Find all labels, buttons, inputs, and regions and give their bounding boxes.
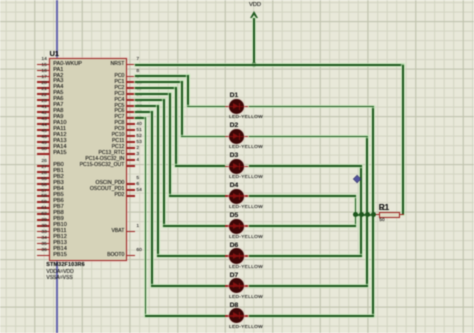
- wire bus vertical D4-D5: [355, 196, 357, 226]
- power symbol VDD: [250, 11, 258, 18]
- pin PB5 (57): [37, 195, 50, 197]
- pin PB3 (55): [37, 183, 50, 185]
- label D7: [230, 272, 239, 279]
- pin PB12 (33): [37, 237, 50, 239]
- label D3: [230, 152, 239, 159]
- pin OSCOUT_PD1 (6): [127, 189, 134, 191]
- pin PB6 (58): [37, 201, 50, 203]
- pin PA7 (23): [37, 105, 50, 107]
- text VDDA=VDD: [46, 270, 73, 275]
- LED D6: [225, 255, 230, 257]
- pin PB9 (62): [37, 219, 50, 221]
- value LED-YELLOW: [229, 115, 263, 120]
- wire R1 left stub: [373, 214, 379, 216]
- LED D8: [225, 315, 230, 317]
- wire PC4 to D5: [135, 99, 165, 101]
- pin BOOT0 (60): [127, 255, 134, 257]
- label D8: [230, 302, 239, 309]
- pin NRST (7): [127, 64, 134, 66]
- pin PB1 (27): [37, 171, 50, 173]
- pin OSCIN_PD0 (5): [127, 183, 134, 185]
- value LED-YELLOW: [229, 235, 263, 240]
- junction bus node 1: [353, 212, 358, 217]
- wire PC0 to D1: [135, 75, 190, 77]
- marker origin diamond: [354, 176, 360, 182]
- label U1: [50, 50, 59, 58]
- value LED-YELLOW: [229, 325, 263, 330]
- pin PB2 (28): [37, 177, 50, 179]
- pin PC11 (52): [127, 141, 134, 143]
- label D2: [230, 122, 239, 129]
- pin PA8 (41): [37, 111, 50, 113]
- pin PC13_RTC (2): [127, 153, 134, 155]
- LED D3: [225, 166, 230, 168]
- wire R1 right stub: [400, 214, 404, 216]
- pin PC2 (10): [127, 87, 134, 89]
- wire D6 cathode lead: [249, 255, 363, 257]
- pin PC4 (24): [127, 99, 134, 101]
- label D4: [230, 182, 239, 189]
- resistor R1: [379, 212, 401, 218]
- wire rail down to R1: [402, 65, 404, 215]
- IC U1 STM32F103R6 body: [49, 58, 127, 261]
- label VDD: [249, 2, 261, 8]
- wire VDD drop: [253, 18, 255, 65]
- text VSSA=VSS: [46, 276, 72, 281]
- pin PA3 (17): [37, 81, 50, 83]
- value LED-YELLOW: [229, 175, 263, 180]
- value LED-YELLOW: [229, 265, 263, 270]
- pin PC5 (25): [127, 105, 134, 107]
- wire PC5 to D6: [135, 105, 159, 107]
- pin PC8 (39): [127, 123, 134, 125]
- label D1: [230, 92, 239, 99]
- wire PC7 to D8: [135, 117, 147, 119]
- wire D3 cathode lead: [249, 165, 363, 167]
- pin PA12 (45): [37, 135, 50, 137]
- pin PC3 (11): [127, 93, 134, 95]
- pin PA14 (49): [37, 147, 50, 149]
- wire PC2 to D3: [135, 87, 177, 89]
- LED D1: [225, 106, 230, 108]
- pin PA0-WKUP (14): [37, 64, 50, 66]
- wire PC6 to D7: [135, 111, 153, 113]
- value STM32F103R6: [46, 263, 85, 269]
- pin PC6 (37): [127, 111, 134, 113]
- value LED-YELLOW: [229, 145, 263, 150]
- wire D2 cathode lead: [249, 136, 368, 138]
- LED D7: [225, 285, 230, 287]
- junction bus node 3: [365, 212, 370, 217]
- pin PA1 (15): [37, 70, 50, 72]
- wire PC3 to D4: [135, 93, 171, 95]
- pin PB13 (34): [37, 243, 50, 245]
- pin PB15 (36): [37, 255, 50, 257]
- junction bus node 4: [371, 212, 376, 217]
- wire D5 cathode lead: [249, 225, 357, 227]
- wire bus vertical D3-D6: [360, 166, 362, 256]
- pin PC1 (9): [127, 81, 134, 83]
- pin PC10 (51): [127, 135, 134, 137]
- value LED-YELLOW: [229, 205, 263, 210]
- label D5: [230, 212, 239, 219]
- wire D8 cathode lead: [249, 315, 374, 317]
- pin PA6 (22): [37, 99, 50, 101]
- pin PC9 (40): [127, 129, 134, 131]
- pin PA15 (50): [37, 153, 50, 155]
- LED D5: [225, 225, 230, 227]
- label R1 underline: [380, 208, 387, 211]
- wire bus vertical D1-D8: [372, 107, 374, 317]
- pin PA13 (46): [37, 141, 50, 143]
- value LED-YELLOW: [229, 295, 263, 300]
- pin PB4 (56): [37, 189, 50, 191]
- wire D7 cathode lead: [249, 285, 368, 287]
- pin PA9 (42): [37, 117, 50, 119]
- value 50: [379, 218, 384, 223]
- pin PB10 (29): [37, 225, 50, 227]
- pin PC14-OSC32_IN (3): [127, 159, 134, 161]
- pin PC7 (38): [127, 117, 134, 119]
- LED D2: [225, 136, 230, 138]
- pin PC12 (53): [127, 147, 134, 149]
- pin PB11 (30): [37, 231, 50, 233]
- pin PB0 (26): [37, 165, 50, 167]
- wire D1 cathode lead: [249, 106, 374, 108]
- pin PD2 (54): [127, 195, 134, 197]
- pin PA2 (16): [37, 76, 50, 78]
- pin PB14 (35): [37, 249, 50, 251]
- label R1: [379, 203, 389, 212]
- pin VBAT (1): [127, 231, 134, 233]
- pin PA4 (20): [37, 87, 50, 89]
- wire bus vertical D2-D7: [366, 136, 368, 286]
- junction bus node 2: [359, 212, 364, 217]
- junction VDD/NRST rail: [252, 62, 257, 67]
- pin PA5 (21): [37, 93, 50, 95]
- wire PC1 to D2: [135, 81, 184, 83]
- pin PB7 (59): [37, 207, 50, 209]
- pin PA11 (44): [37, 129, 50, 131]
- pin PA10 (43): [37, 123, 50, 125]
- wire D4 cathode lead: [249, 195, 357, 197]
- wire LED cathode bus: [356, 214, 374, 216]
- label D6: [230, 242, 239, 249]
- wire NRST rail: [135, 64, 404, 66]
- pin PB8 (61): [37, 213, 50, 215]
- pin PC15-OSC32_OUT (4): [127, 165, 134, 167]
- LED D4: [225, 195, 230, 197]
- pin PC0 (8): [127, 76, 134, 78]
- vertical blue cursor line: [56, 0, 57, 333]
